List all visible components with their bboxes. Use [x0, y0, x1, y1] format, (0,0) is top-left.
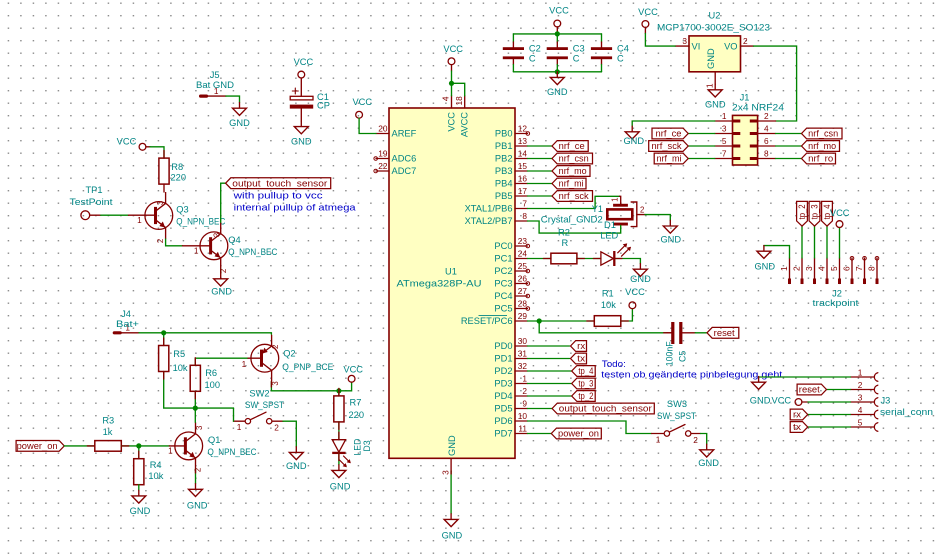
wire — [528, 158, 553, 160]
J1 pin 6 — [758, 145, 776, 147]
svg-text:nrf_mo: nrf_mo — [559, 166, 587, 176]
svg-text:GND: GND — [547, 87, 568, 97]
svg-text:GND: GND — [630, 274, 651, 284]
svg-text:C5: C5 — [678, 351, 688, 362]
svg-text:SW2: SW2 — [249, 389, 269, 399]
global label nrf_sck at U1 — [552, 191, 593, 202]
svg-text:10: 10 — [518, 411, 528, 421]
wire — [808, 401, 850, 403]
svg-text:PB5: PB5 — [495, 191, 513, 201]
svg-text:SW3: SW3 — [667, 399, 687, 409]
global label tp_4 at U1 — [572, 366, 596, 377]
wire — [451, 71, 453, 96]
svg-text:SW_SPST: SW_SPST — [657, 411, 696, 421]
svg-text:2: 2 — [693, 435, 698, 445]
capacitor C1 polarized — [300, 78, 302, 96]
svg-text:17: 17 — [518, 186, 528, 196]
ground at C1 — [294, 121, 308, 134]
wire — [839, 228, 841, 259]
wire — [138, 446, 140, 459]
wire — [64, 445, 95, 447]
global label tx at J3 — [790, 422, 808, 433]
transistor Q3 Q_NPN_BEC — [145, 192, 173, 239]
wire — [220, 269, 222, 273]
VCC power symbol at J3 pin 3 — [795, 399, 802, 406]
VCC power symbol at R8 — [139, 143, 146, 150]
svg-text:1: 1 — [194, 245, 199, 255]
svg-text:PB1: PB1 — [495, 141, 513, 151]
svg-text:2: 2 — [274, 423, 279, 433]
wire VCC to R8 — [146, 146, 150, 148]
svg-text:U2: U2 — [709, 10, 721, 20]
ground at SW2 — [289, 447, 303, 460]
svg-text:22: 22 — [378, 161, 388, 171]
U1 pin 8 (XTAL2/PB7) — [515, 220, 528, 222]
J1 pin 4 — [758, 133, 776, 135]
svg-text:C4: C4 — [617, 44, 629, 54]
svg-text:SW_SPST: SW_SPST — [245, 400, 284, 410]
svg-text:TestPoint: TestPoint — [70, 197, 113, 207]
wire — [601, 65, 603, 72]
svg-text:tp_2: tp_2 — [578, 391, 593, 401]
svg-text:26: 26 — [518, 273, 528, 283]
svg-text:2: 2 — [271, 345, 280, 349]
wire — [528, 195, 553, 197]
svg-text:Q1: Q1 — [208, 435, 220, 445]
wire — [688, 145, 715, 147]
ground at J1 pin 1 — [625, 126, 639, 139]
wire — [528, 258, 551, 260]
R5 pin stubs — [163, 338, 165, 346]
U1 pin 16 (PB4) — [515, 183, 528, 185]
U1 pin 28 (PC5) — [515, 308, 528, 310]
svg-text:GND: GND — [623, 136, 644, 146]
global label tp_2 at U1 — [572, 391, 596, 402]
R2 pin stubs — [543, 258, 551, 260]
wire — [163, 333, 165, 346]
global label nrf_mi at U1 — [552, 178, 586, 189]
J2 pin 3 — [814, 258, 816, 284]
svg-text:2: 2 — [764, 111, 769, 121]
wire — [556, 34, 558, 42]
svg-text:1: 1 — [704, 83, 714, 88]
svg-text:GND: GND — [706, 48, 716, 69]
svg-text:1k: 1k — [103, 427, 113, 437]
resistor R4 — [134, 459, 144, 485]
J2 pin 6 — [851, 258, 853, 284]
svg-text:VCC: VCC — [625, 287, 645, 297]
wire — [764, 246, 790, 258]
global label tp_3 at J2 — [809, 201, 820, 226]
J3 pin 4 — [850, 414, 873, 416]
svg-text:AVCC: AVCC — [460, 112, 470, 137]
VCC power symbol at C1 — [298, 71, 305, 78]
svg-text:R6: R6 — [205, 368, 217, 378]
junction at C3 top — [555, 31, 560, 36]
J1 pin 2 — [758, 120, 776, 122]
svg-text:tp_4: tp_4 — [578, 366, 593, 376]
svg-text:CP: CP — [317, 101, 330, 111]
U1 GND pin stub — [450, 471, 452, 474]
capacitor C3 — [556, 42, 558, 47]
svg-text:19: 19 — [378, 148, 388, 158]
svg-text:1: 1 — [656, 434, 661, 444]
svg-text:C3: C3 — [573, 44, 585, 54]
svg-text:1: 1 — [611, 198, 620, 202]
wire — [150, 147, 164, 158]
svg-text:PC2: PC2 — [494, 266, 512, 276]
global label tx at U1 — [571, 353, 587, 364]
svg-text:AREF: AREF — [392, 129, 417, 139]
J2 pin 5 — [839, 258, 841, 284]
wire — [688, 133, 715, 135]
svg-text:J5: J5 — [210, 70, 220, 80]
U1 pin 25 (PC2) — [515, 270, 528, 272]
svg-text:nrf_mi: nrf_mi — [559, 179, 584, 189]
svg-text:C: C — [573, 54, 580, 64]
svg-text:6: 6 — [764, 136, 769, 146]
wire VCC to U2 VI — [644, 27, 646, 33]
svg-text:Q_NPN_BEC: Q_NPN_BEC — [208, 447, 257, 457]
svg-text:2: 2 — [156, 239, 165, 243]
svg-text:4: 4 — [441, 96, 451, 101]
resistor R1 — [594, 316, 621, 327]
svg-text:1: 1 — [137, 215, 142, 225]
wire — [528, 421, 652, 434]
svg-text:GND: GND — [754, 261, 775, 271]
svg-text:GND: GND — [442, 531, 463, 541]
LED D1 pin stubs — [593, 258, 601, 260]
svg-text:ATmega328P-AU: ATmega328P-AU — [397, 279, 482, 289]
wire — [166, 239, 183, 246]
svg-text:16: 16 — [518, 173, 528, 183]
wire — [528, 170, 553, 172]
wire — [233, 408, 235, 421]
svg-text:1: 1 — [779, 266, 789, 271]
svg-text:PC5: PC5 — [494, 304, 512, 314]
junction at RESET wire — [537, 318, 542, 323]
svg-text:1: 1 — [168, 446, 173, 456]
VCC power symbol above U1 — [448, 58, 455, 65]
capacitor C2 — [512, 42, 514, 47]
ground at R4 — [132, 490, 146, 503]
svg-text:C: C — [529, 54, 536, 64]
svg-text:3: 3 — [722, 123, 727, 133]
svg-text:reset: reset — [799, 385, 821, 395]
LED D1 — [601, 252, 614, 265]
capacitor C5 100nF — [667, 332, 671, 334]
op-amp U1 ATmega328P-AU body — [389, 108, 515, 458]
wire — [621, 309, 633, 321]
svg-text:GND: GND — [229, 118, 250, 128]
LED D3 — [332, 440, 345, 452]
J2 pin 2 — [801, 258, 803, 284]
resistor R3 — [95, 441, 122, 452]
wire — [528, 320, 595, 322]
wire — [632, 121, 715, 126]
VCC power symbol at J2 — [836, 221, 843, 228]
svg-text:PB4: PB4 — [495, 179, 513, 189]
svg-text:testen ob geänderte pinbelegun: testen ob geänderte pinbelegung geht — [601, 369, 782, 379]
wire — [271, 382, 351, 391]
wire — [826, 226, 828, 258]
U1 pin 29 (RESET/PC6) — [515, 320, 528, 322]
svg-text:3: 3 — [195, 426, 204, 430]
wire — [776, 158, 802, 160]
svg-text:14: 14 — [518, 148, 528, 158]
svg-text:GND: GND — [705, 99, 726, 109]
Q2 collector pin stub — [270, 382, 272, 387]
ground at J3 — [752, 377, 766, 390]
svg-text:tx: tx — [577, 354, 586, 364]
wire — [688, 158, 715, 160]
svg-text:J1: J1 — [740, 92, 750, 102]
wire — [616, 259, 641, 264]
svg-text:rx: rx — [577, 341, 586, 351]
svg-text:tp_3: tp_3 — [578, 379, 593, 389]
svg-text:8: 8 — [764, 148, 769, 158]
svg-text:nrf_mi: nrf_mi — [657, 154, 682, 164]
svg-text:10k: 10k — [601, 300, 616, 310]
svg-text:C2: C2 — [529, 44, 541, 54]
svg-text:RESET/PC6: RESET/PC6 — [461, 316, 513, 326]
J1 pin 8 — [758, 158, 776, 160]
ground below C2-C4 — [550, 72, 564, 85]
crystal Y1 Crystal_GND2 — [613, 204, 628, 207]
svg-text:2: 2 — [522, 386, 527, 396]
svg-text:J4: J4 — [121, 309, 131, 319]
U1 pin 1 (PD3) — [515, 383, 528, 385]
global label tp_3 at U1 — [572, 378, 596, 389]
U1 pin 10 (PD6) — [515, 420, 528, 422]
svg-text:8: 8 — [522, 211, 527, 221]
global label reset at C5 — [707, 327, 739, 338]
wire — [121, 445, 169, 447]
svg-text:1: 1 — [722, 111, 727, 121]
Q4 emitter pin stub — [220, 269, 222, 273]
Q1 base pin — [169, 445, 185, 447]
global label output_touch_sensor at U1 — [552, 403, 654, 414]
ground at U2 — [708, 84, 722, 97]
svg-text:Q4: Q4 — [228, 235, 240, 245]
svg-text:220: 220 — [171, 173, 187, 183]
svg-text:power_on: power_on — [558, 429, 599, 439]
J3 pin 2 — [850, 389, 873, 391]
svg-text:XTAL1/PB6: XTAL1/PB6 — [465, 204, 513, 214]
global label power_on at U1 — [551, 428, 601, 439]
J2 pin 7 — [864, 258, 866, 284]
global label nrf_ce at U1 — [552, 141, 588, 152]
U1 pin 32 (PD2) — [515, 370, 528, 372]
wire — [528, 358, 570, 360]
svg-text:nrf_ro: nrf_ro — [808, 154, 833, 164]
connector J5 Bat GND pin 1 — [201, 95, 226, 97]
svg-text:VCC: VCC — [352, 97, 372, 107]
U2 pin 1 (GND) bottom — [714, 72, 716, 84]
svg-text:ADC7: ADC7 — [392, 166, 417, 176]
svg-text:7: 7 — [854, 266, 864, 271]
svg-text:GND: GND — [698, 458, 719, 468]
wire — [528, 370, 572, 372]
svg-text:10k: 10k — [148, 471, 163, 481]
U1 pin 3 (GND) bottom — [450, 458, 452, 471]
global label tp_4 at J2 — [822, 201, 833, 226]
U2 pin 3 (VI) — [675, 45, 689, 47]
svg-text:GND: GND — [211, 286, 232, 296]
svg-text:100: 100 — [205, 380, 221, 390]
wire — [513, 71, 601, 73]
svg-text:2: 2 — [193, 468, 202, 472]
transistor Q2 Q_PNP_BCE — [251, 335, 279, 382]
R7 pin stubs — [338, 388, 340, 396]
svg-text:5: 5 — [858, 417, 863, 427]
U1 pin 14 (PB2) — [515, 158, 528, 160]
J1 pin 3 — [715, 133, 733, 135]
wire — [195, 358, 248, 365]
svg-text:GND: GND — [286, 461, 307, 471]
svg-text:VO: VO — [724, 41, 737, 51]
wire — [338, 422, 340, 440]
svg-text:nrf_csn: nrf_csn — [808, 129, 838, 139]
svg-text:24: 24 — [518, 248, 528, 258]
wire VCC to U1 VCC/AVCC pins — [451, 65, 453, 71]
U1 pin 2 (PD4) — [515, 395, 528, 397]
svg-text:VCC: VCC — [443, 44, 463, 54]
svg-text:U1: U1 — [445, 267, 457, 277]
wire — [138, 485, 140, 491]
VCC power symbol at C2-C4 — [554, 20, 561, 27]
resistor R6 — [190, 365, 200, 391]
resistor R8 — [159, 158, 169, 184]
R3 pin stubs — [87, 445, 95, 447]
wire — [283, 421, 296, 447]
ground at Q4 — [214, 273, 228, 286]
wire — [101, 214, 129, 216]
svg-text:9: 9 — [522, 398, 527, 408]
wire VCC rail above C2-C4 — [556, 27, 558, 34]
wire — [450, 471, 452, 514]
svg-text:R: R — [561, 238, 568, 248]
wire — [645, 215, 670, 221]
svg-text:TP1: TP1 — [85, 185, 102, 195]
svg-text:VCC: VCC — [830, 208, 850, 218]
U1 pin 31 (PD1) — [515, 358, 528, 360]
junction at C3 bottom — [555, 69, 560, 74]
svg-text:2: 2 — [792, 266, 802, 271]
svg-text:Bat GND: Bat GND — [196, 80, 234, 90]
wire — [556, 65, 558, 72]
svg-text:ADC6: ADC6 — [392, 154, 417, 164]
Q1 emitter pin stub — [195, 469, 197, 473]
svg-text:VCC: VCC — [294, 57, 314, 67]
VCC power symbol at AREF — [356, 111, 363, 118]
junction at R4 top — [136, 443, 141, 448]
svg-text:3: 3 — [156, 201, 165, 205]
wire — [528, 345, 570, 347]
svg-text:Y1: Y1 — [592, 204, 603, 214]
global label nrf_sck at J1 — [649, 141, 689, 152]
svg-text:PC4: PC4 — [494, 291, 512, 301]
J1 pin 7 — [715, 158, 733, 160]
J3 pin 5 — [850, 426, 873, 428]
global label nrf_mi at J1 — [654, 153, 688, 164]
transistor Q4 Q_NPN_BEC — [200, 222, 228, 269]
svg-text:10k: 10k — [173, 363, 188, 373]
LED D3 pin stubs — [338, 432, 340, 440]
wire — [338, 453, 340, 465]
wire — [808, 414, 851, 416]
svg-text:VCC: VCC — [343, 365, 363, 375]
svg-text:220: 220 — [349, 410, 365, 420]
Q3 collector pin from R8 — [163, 184, 165, 192]
svg-text:Q3: Q3 — [176, 204, 188, 214]
svg-text:PD2: PD2 — [494, 366, 512, 376]
svg-text:3: 3 — [858, 392, 863, 402]
global label rx at J3 — [790, 409, 808, 420]
switch SW2 SW_SPST — [245, 419, 250, 424]
svg-text:R5: R5 — [173, 349, 185, 359]
svg-text:7: 7 — [722, 148, 727, 158]
wire — [226, 96, 240, 103]
svg-text:VCC: VCC — [772, 396, 792, 406]
svg-text:D3: D3 — [362, 440, 372, 451]
svg-text:27: 27 — [518, 286, 528, 296]
J2 pin 4 — [826, 258, 828, 284]
svg-text:3: 3 — [440, 470, 450, 475]
crystal Y1 pin 1 — [620, 196, 621, 204]
J3 pin 1 — [850, 376, 873, 378]
wire — [701, 434, 707, 445]
switch SW3 SW_SPST — [664, 431, 669, 436]
junction at R5 top — [161, 330, 166, 335]
U1 pin 23 (PC0) — [515, 245, 528, 247]
svg-text:25: 25 — [518, 261, 528, 271]
svg-text:VCC: VCC — [549, 6, 569, 16]
J1 pin 5 — [715, 145, 733, 147]
svg-text:nrf_ce: nrf_ce — [559, 141, 585, 151]
svg-text:32: 32 — [518, 361, 528, 371]
wire — [512, 34, 514, 42]
wire — [528, 221, 621, 233]
svg-text:trackpoint: trackpoint — [813, 298, 859, 308]
svg-text:100nF: 100nF — [665, 341, 675, 367]
svg-text:nrf_sck: nrf_sck — [559, 191, 590, 201]
svg-text:4: 4 — [764, 123, 769, 133]
wire — [601, 34, 603, 42]
wire — [759, 376, 851, 378]
wire — [338, 391, 340, 396]
junction at rail/Q1 collector — [193, 406, 198, 411]
svg-text:GND: GND — [130, 506, 151, 516]
svg-text:1: 1 — [858, 367, 863, 377]
R1 pin stubs — [587, 320, 595, 322]
svg-text:GND: GND — [447, 435, 457, 456]
global label power_on at R3 — [16, 441, 64, 452]
J1 pin 1 — [715, 120, 733, 122]
svg-text:R3: R3 — [102, 416, 114, 426]
svg-text:PB2: PB2 — [495, 154, 513, 164]
svg-text:VI: VI — [692, 41, 701, 51]
VCC power symbol at U2 VI — [642, 21, 649, 28]
svg-text:PD4: PD4 — [494, 391, 512, 401]
U1 pin 24 (PC1) — [515, 258, 528, 260]
U1 pin 15 (PB3) — [515, 170, 528, 172]
svg-text:Q_NPN_BEC: Q_NPN_BEC — [228, 247, 277, 257]
svg-text:power_on: power_on — [17, 441, 58, 451]
svg-text:output_touch_sensor: output_touch_sensor — [232, 178, 327, 188]
svg-text:1: 1 — [237, 422, 242, 432]
svg-text:3: 3 — [271, 381, 280, 385]
